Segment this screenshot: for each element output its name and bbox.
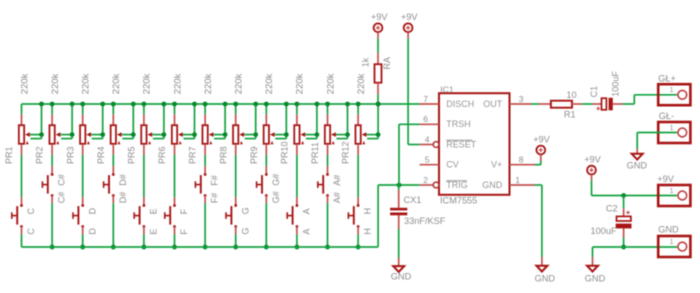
- svg-text:A: A: [302, 229, 312, 235]
- wire +9V to IC pin 4 RESET: [408, 38, 420, 144]
- label GND below CX1: [391, 272, 412, 282]
- junction wiper corner PR4: [131, 132, 136, 137]
- wire PR1 bottom to switch C: [21, 155, 23, 197]
- svg-text:F: F: [179, 229, 189, 235]
- push button switch F: [165, 197, 176, 234]
- pin 1 GND stub: [510, 184, 535, 186]
- wire CX1 to ground: [398, 229, 400, 258]
- wire PR2 bottom to switch C#: [51, 155, 53, 166]
- junction bus at PR2 wiper: [70, 102, 75, 107]
- push button switch A#: [318, 166, 329, 203]
- capacitor CX1 33nF: [390, 185, 407, 229]
- label switch value F#: [210, 193, 220, 204]
- label switch value E: [149, 229, 159, 235]
- wire switch C to bottom bus: [21, 234, 23, 247]
- label PR8: [218, 146, 228, 164]
- pin 2 TRIG stub with bubble: [420, 182, 439, 188]
- svg-text:RA: RA: [382, 57, 392, 70]
- svg-text:1: 1: [670, 125, 674, 132]
- svg-text:33nF/KSF: 33nF/KSF: [404, 216, 446, 226]
- junction bottom bus at A#: [325, 245, 330, 250]
- wire switch F# to bottom bus: [204, 203, 206, 247]
- label C2: [606, 204, 618, 214]
- wire PR10 bottom to switch A: [296, 155, 298, 197]
- junction wiper corner PR3: [100, 132, 105, 137]
- junction bus at PR11 wiper: [345, 102, 350, 107]
- label switch name F#: [210, 175, 220, 186]
- wire switch A# to bottom bus: [327, 203, 329, 247]
- svg-text:7: 7: [423, 94, 428, 104]
- svg-text:10: 10: [566, 90, 576, 100]
- label IC1: [440, 84, 454, 94]
- label 220k value of PR2: [50, 73, 61, 94]
- junction wiper corner PR11: [345, 132, 350, 137]
- label 220k value of PR5: [142, 73, 153, 94]
- label switch name A#: [332, 175, 342, 186]
- svg-text:PR7: PR7: [188, 146, 198, 164]
- svg-text:CX1: CX1: [404, 195, 422, 205]
- junction bus at PR7 wiper: [223, 102, 228, 107]
- wire PR6 bottom to switch F: [174, 155, 176, 197]
- wire TRSH vertical and horizontal to IC pin 6: [399, 124, 420, 185]
- label +9V connector: [657, 174, 674, 184]
- label GND (right bus): [585, 274, 606, 284]
- svg-text:GŁ+: GŁ+: [658, 73, 676, 83]
- ground symbol below GL-: [632, 149, 643, 160]
- svg-text:220k: 220k: [172, 73, 183, 94]
- svg-text:GND: GND: [535, 274, 556, 284]
- svg-text:E: E: [149, 229, 159, 235]
- svg-text:F: F: [179, 208, 189, 214]
- svg-text:PR10: PR10: [280, 141, 290, 164]
- svg-text:A#: A#: [332, 192, 342, 203]
- svg-text:GND: GND: [585, 274, 606, 284]
- junction C2 bottom: [621, 245, 626, 250]
- label switch value C: [26, 228, 36, 235]
- label switch name H: [363, 208, 373, 215]
- svg-text:1k: 1k: [361, 57, 371, 67]
- wire PR3 bottom to switch D: [82, 155, 84, 197]
- wire wiper of PR1 to bus: [30, 104, 42, 139]
- junction bus at PR10 top: [295, 102, 300, 107]
- wire wiper of PR9 to bus: [275, 104, 287, 139]
- wire IC pin 1 to ground: [535, 185, 542, 257]
- potentiometer PR9 220k: [264, 104, 275, 155]
- wire wiper of PR10 to bus: [305, 104, 317, 139]
- wire GL- to ground: [637, 133, 677, 150]
- svg-text:C: C: [26, 207, 36, 214]
- push button switch G#: [257, 166, 268, 203]
- wire wiper of PR5 to bus: [152, 104, 164, 139]
- svg-text:2: 2: [423, 175, 428, 185]
- svg-text:C#: C#: [57, 174, 67, 186]
- svg-text:1: 1: [670, 188, 674, 195]
- junction bus at PR2 top: [50, 102, 55, 107]
- ground symbol below CX1: [393, 258, 404, 272]
- junction wiper corner PR2: [70, 132, 75, 137]
- label 100uF value of C1: [610, 71, 620, 97]
- svg-text:5: 5: [425, 155, 430, 165]
- junction bus at PR9 top: [264, 102, 269, 107]
- junction bus / RA / PR12 wiper: [376, 102, 381, 107]
- label CX1: [404, 195, 422, 205]
- junction bus at PR5 wiper: [162, 102, 167, 107]
- junction bus at PR7 top: [203, 102, 208, 107]
- label RA: [382, 57, 392, 70]
- pin number 6: [423, 114, 428, 124]
- svg-text:C#: C#: [57, 192, 67, 204]
- svg-text:GND: GND: [627, 160, 648, 170]
- pin name GND: [482, 180, 503, 190]
- label 220k value of PR1: [19, 73, 30, 94]
- op-amp/timer IC1 ICM7555 body: [439, 93, 510, 195]
- svg-text:D#: D#: [118, 192, 128, 204]
- wire riser bottom bus to TRIG line: [377, 185, 379, 247]
- wire switch H to bottom bus: [357, 234, 359, 247]
- label 220k value of PR11: [325, 73, 336, 94]
- pin name V+: [491, 160, 502, 170]
- svg-text:D: D: [87, 207, 97, 214]
- label switch value D: [87, 228, 97, 235]
- svg-text:GND: GND: [658, 225, 679, 235]
- junction wiper corner PR12: [376, 132, 381, 137]
- junction wiper corner PR5: [162, 132, 167, 137]
- label PR1: [4, 146, 14, 164]
- junction bus at PR3 top: [80, 102, 85, 107]
- junction bus at PR12 top: [356, 102, 361, 107]
- svg-text:PR9: PR9: [249, 146, 259, 164]
- svg-text:1: 1: [670, 87, 674, 94]
- svg-text:PR12: PR12: [341, 141, 351, 164]
- potentiometer PR10 220k: [294, 104, 305, 155]
- wire bottom key bus (TRIG net): [22, 246, 379, 248]
- pin number 2: [423, 175, 428, 185]
- potentiometer PR12 220k: [355, 104, 366, 155]
- wire wiper of PR6 to bus: [183, 104, 195, 139]
- label switch value D#: [118, 192, 128, 204]
- wire C2 to ground bus: [623, 237, 625, 247]
- junction bottom bus at F#: [203, 245, 208, 250]
- wire switch G# to bottom bus: [265, 203, 267, 247]
- svg-text:220k: 220k: [325, 73, 336, 94]
- junction bus at PR12 wiper: [376, 102, 381, 107]
- junction bottom bus at C#: [50, 245, 55, 250]
- svg-text:TRIG: TRIG: [446, 180, 468, 190]
- connector GND: [658, 236, 690, 257]
- label switch value A#: [332, 192, 342, 203]
- supply +9V symbol above RESET: [404, 23, 413, 38]
- push button switch D#: [104, 166, 115, 203]
- label +9V (connector): [584, 154, 601, 164]
- junction bus at PR10 wiper: [315, 102, 320, 107]
- label PR5: [127, 146, 137, 164]
- label 220k value of PR3: [81, 73, 92, 94]
- label switch name C: [26, 207, 36, 214]
- label +9V (RA supply): [371, 12, 388, 22]
- wire R1 to C1: [582, 103, 593, 105]
- pin number 5: [425, 155, 430, 165]
- wire IC pin 8 to +9V: [535, 161, 541, 165]
- label GND below GL-: [627, 160, 648, 170]
- label PR12: [341, 141, 351, 164]
- potentiometer PR6 220k: [172, 104, 183, 155]
- push button switch E: [134, 197, 145, 234]
- label 220k value of PR10: [295, 73, 306, 94]
- label switch name D#: [118, 174, 128, 186]
- junction wiper corner PR1: [39, 132, 44, 137]
- svg-text:220k: 220k: [234, 73, 245, 94]
- pin name TRSH: [446, 119, 471, 129]
- pin 8 V+ stub: [510, 164, 536, 166]
- junction bus at PR11 top: [325, 102, 330, 107]
- svg-text:220k: 220k: [50, 73, 61, 94]
- pin number 7: [423, 94, 428, 104]
- junction wiper corner PR10: [315, 132, 320, 137]
- svg-text:C2: C2: [606, 204, 618, 214]
- svg-text:C: C: [26, 228, 36, 235]
- label 220k value of PR6: [172, 73, 183, 94]
- wire switch D to bottom bus: [82, 234, 84, 247]
- svg-text:220k: 220k: [203, 73, 214, 94]
- ground symbol for IC pin 1: [536, 257, 547, 272]
- wire wiper of PR12 to bus: [367, 104, 379, 139]
- pin number 8: [519, 155, 524, 165]
- svg-text:PR6: PR6: [157, 146, 167, 164]
- wire PR9 bottom to switch G#: [265, 155, 267, 166]
- resistor RA 1k: [375, 53, 382, 94]
- svg-text:DISCH: DISCH: [446, 99, 474, 109]
- svg-text:PR1: PR1: [4, 146, 14, 164]
- label switch value A: [302, 229, 312, 235]
- label 100uF value of C2: [591, 226, 617, 236]
- supply +9V symbol at pin 8: [536, 146, 545, 161]
- label switch name G#: [271, 174, 281, 186]
- junction bus at PR3 wiper: [100, 102, 105, 107]
- label switch name A: [302, 208, 312, 214]
- svg-text:1: 1: [515, 175, 520, 185]
- svg-text:GND: GND: [482, 180, 503, 190]
- svg-text:A: A: [302, 208, 312, 214]
- svg-text:G#: G#: [271, 174, 281, 186]
- label 10 value of R1: [566, 90, 576, 100]
- svg-text:220k: 220k: [81, 73, 92, 94]
- svg-text:R1: R1: [564, 109, 576, 119]
- label +9V (RESET supply): [401, 12, 418, 22]
- wire wiper of PR7 to bus: [214, 104, 226, 139]
- svg-text:V+: V+: [491, 160, 502, 170]
- svg-text:+9V: +9V: [371, 12, 388, 22]
- wire switch D# to bottom bus: [112, 203, 114, 247]
- pin name OUT: [483, 99, 503, 109]
- junction wiper corner PR6: [192, 132, 197, 137]
- svg-text:GND: GND: [391, 272, 412, 282]
- potentiometer PR4 220k: [111, 104, 122, 155]
- wire wiper of PR11 to bus: [336, 104, 348, 139]
- junction bus at PR4 top: [111, 102, 116, 107]
- label PR10: [280, 141, 290, 164]
- potentiometer PR5 220k: [141, 104, 152, 155]
- label +9V (pin 8): [533, 134, 550, 144]
- capacitor C1 100uF polarized: [593, 98, 623, 111]
- junction bus at PR9 wiper: [284, 102, 289, 107]
- svg-text:C1: C1: [589, 86, 599, 98]
- wire DISCH bus (top horizontal net): [22, 103, 420, 105]
- svg-text:100uF: 100uF: [610, 71, 620, 97]
- label 220k value of PR8: [234, 73, 245, 94]
- wire switch G to bottom bus: [235, 234, 237, 247]
- push button switch F#: [195, 166, 206, 203]
- ground symbol right bus: [587, 257, 598, 272]
- wire switch F to bottom bus: [174, 234, 176, 247]
- pin name RESET with overline: [446, 140, 477, 150]
- wire +9V to RA: [377, 38, 379, 52]
- potentiometer PR3 220k: [80, 104, 91, 155]
- wire RA to DISCH bus: [377, 94, 379, 104]
- svg-text:1: 1: [670, 239, 674, 246]
- junction TRIG/TRSH/CX1 node: [397, 183, 402, 188]
- wire right ground bus: [593, 247, 678, 257]
- svg-text:3: 3: [519, 94, 524, 104]
- svg-text:H: H: [363, 228, 373, 235]
- junction bottom bus at E: [142, 245, 147, 250]
- wire PR12 bottom to switch H: [357, 155, 359, 197]
- label switch name C#: [57, 174, 67, 186]
- potentiometer PR1 220k: [19, 104, 30, 155]
- label PR2: [35, 146, 45, 164]
- svg-text:PR5: PR5: [127, 146, 137, 164]
- svg-text:RESET: RESET: [446, 140, 477, 150]
- junction bottom bus at G: [233, 245, 238, 250]
- junction bottom bus at D: [80, 245, 85, 250]
- label C1: [589, 86, 599, 98]
- svg-text:H: H: [363, 208, 373, 215]
- label GL-: [659, 111, 674, 121]
- junction bottom bus at F: [172, 245, 177, 250]
- supply +9V symbol above RA: [374, 23, 383, 38]
- junction wiper corner PR9: [284, 132, 289, 137]
- push button switch G: [226, 197, 237, 234]
- label switch name G: [240, 207, 250, 214]
- svg-text:G#: G#: [271, 191, 281, 203]
- svg-text:D: D: [87, 228, 97, 235]
- wire switch C# to bottom bus: [51, 203, 53, 247]
- svg-text:220k: 220k: [264, 73, 275, 94]
- label switch value H: [363, 228, 373, 235]
- wire PR11 bottom to switch A#: [327, 155, 329, 166]
- wire IC pin 3 to R1: [531, 103, 538, 105]
- wire PR5 bottom to switch E: [143, 155, 145, 197]
- connector GL+ (speaker +): [658, 84, 690, 105]
- potentiometer PR7 220k: [202, 104, 213, 155]
- label PR7: [188, 146, 198, 164]
- label switch name D: [87, 207, 97, 214]
- svg-text:CV: CV: [446, 160, 459, 170]
- pin 4 RESET stub with bubble: [420, 142, 439, 148]
- pin name CV: [446, 160, 459, 170]
- push button switch A: [287, 197, 298, 234]
- svg-text:220k: 220k: [142, 73, 153, 94]
- junction bottom bus at H: [356, 245, 361, 250]
- junction bus at PR4 wiper: [131, 102, 136, 107]
- svg-text:D#: D#: [118, 174, 128, 186]
- svg-text:F#: F#: [210, 193, 220, 204]
- wire PR8 bottom to switch G: [235, 155, 237, 197]
- pin number 1: [515, 175, 520, 185]
- push button switch D: [73, 197, 84, 234]
- label 33nF/KSF value: [404, 216, 446, 226]
- svg-text:G: G: [240, 207, 250, 214]
- junction bus at PR5 top: [142, 102, 147, 107]
- svg-text:6: 6: [423, 114, 428, 124]
- junction bottom bus at D#: [111, 245, 116, 250]
- pin 3 OUT stub: [510, 103, 532, 105]
- junction bus at PR8 top: [233, 102, 238, 107]
- pin 5 CV stub (unconnected): [420, 164, 439, 166]
- pin name TRIG with overline: [446, 180, 468, 190]
- junction bottom bus at G#: [264, 245, 269, 250]
- label switch name F: [179, 208, 189, 214]
- label GL+: [658, 73, 676, 83]
- supply +9V symbol at output connector: [587, 166, 596, 181]
- wire switch A to bottom bus: [296, 234, 298, 247]
- wire switch E to bottom bus: [143, 234, 145, 247]
- wire C1 to connector GL+: [623, 95, 678, 104]
- label PR6: [157, 146, 167, 164]
- junction C2 top: [621, 193, 626, 198]
- svg-text:PR11: PR11: [310, 142, 320, 164]
- svg-text:PR2: PR2: [35, 146, 45, 164]
- svg-text:GŁ-: GŁ-: [659, 111, 674, 121]
- wire wiper of PR3 to bus: [91, 104, 103, 139]
- capacitor C2 100uF polarized: [616, 196, 632, 238]
- svg-text:G: G: [240, 228, 250, 235]
- junction wiper corner PR7: [223, 132, 228, 137]
- potentiometer PR2 220k: [49, 104, 60, 155]
- push button switch C#: [42, 166, 53, 203]
- label switch name E: [149, 208, 159, 214]
- push button switch C: [12, 197, 23, 234]
- junction bus at PR1 wiper: [39, 102, 44, 107]
- potentiometer PR11 220k: [325, 104, 336, 155]
- svg-text:+9V: +9V: [584, 154, 601, 164]
- pin 6 TRSH stub: [420, 123, 439, 125]
- label PR4: [96, 146, 106, 164]
- label 220k value of PR7: [203, 73, 214, 94]
- label ICM7555: [440, 196, 477, 206]
- wire +9V to connector and C2: [592, 180, 678, 195]
- label switch value F: [179, 229, 189, 235]
- resistor R1 10: [539, 101, 582, 108]
- label GND (pin 1): [535, 274, 556, 284]
- label switch value G#: [271, 191, 281, 203]
- label switch value G: [240, 228, 250, 235]
- wire wiper of PR2 to bus: [61, 104, 73, 139]
- label 1k value of RA: [361, 57, 371, 67]
- label R1: [564, 109, 576, 119]
- svg-text:+9V: +9V: [533, 134, 550, 144]
- svg-text:4: 4: [425, 134, 430, 144]
- label PR3: [65, 146, 75, 164]
- svg-text:+9V: +9V: [401, 12, 418, 22]
- svg-text:100uF: 100uF: [591, 226, 617, 236]
- wire wiper of PR4 to bus: [122, 104, 134, 139]
- svg-text:PR3: PR3: [65, 146, 75, 164]
- svg-text:220k: 220k: [111, 73, 122, 94]
- svg-text:PR8: PR8: [218, 146, 228, 164]
- svg-text:F#: F#: [210, 175, 220, 186]
- potentiometer PR8 220k: [233, 104, 244, 155]
- svg-text:220k: 220k: [295, 73, 306, 94]
